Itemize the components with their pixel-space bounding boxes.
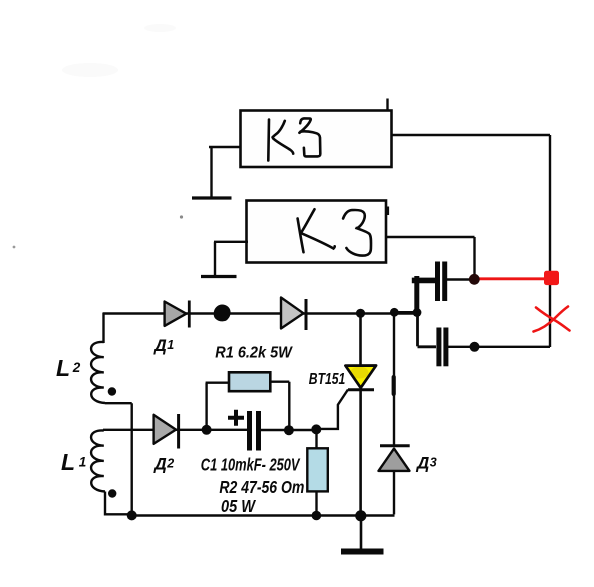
diode D1 xyxy=(165,301,190,328)
node: top rail dot to D3 xyxy=(390,308,399,317)
thyristor BT151 xyxy=(315,311,376,516)
wire: box2 right lead down to cap node xyxy=(385,237,475,278)
inductor L2 xyxy=(91,342,105,403)
relay box K3 bottom xyxy=(247,201,389,263)
node: C1 right dot xyxy=(284,425,294,435)
wire: top rail L2 to caps xyxy=(103,312,417,315)
inductor L1 xyxy=(91,430,105,491)
svg-text:R1 6.2k 5W: R1 6.2k 5W xyxy=(215,344,293,361)
resistor R1 xyxy=(206,372,290,430)
background smudges xyxy=(13,24,364,248)
node: top rail dot at thick wire xyxy=(413,308,422,317)
wire: L1 bottom to bottom rail xyxy=(105,492,132,515)
diode top second (unlabeled) xyxy=(281,298,306,331)
svg-text:C1 10mkF- 250V: C1 10mkF- 250V xyxy=(201,455,301,475)
wire: box2 left lead xyxy=(214,241,248,243)
red terminal square xyxy=(544,271,559,285)
node: L1 bottom dot xyxy=(108,489,116,497)
resistor R2 xyxy=(307,430,328,516)
ground box1 xyxy=(192,147,232,198)
diode D2 xyxy=(154,414,179,449)
wire: thick bend to top capacitor xyxy=(415,278,433,284)
svg-text:L: L xyxy=(61,449,75,475)
wire: L2 bottom to vertical xyxy=(105,403,132,515)
ground box2 xyxy=(201,242,237,277)
wire: node row y312 xyxy=(394,311,417,314)
label K3 handwritten box2 xyxy=(298,209,371,255)
diode D3 xyxy=(379,312,410,514)
svg-text:BT151: BT151 xyxy=(309,371,346,388)
node: C1 left dot xyxy=(202,425,212,435)
node: bottom rail dot center xyxy=(355,510,366,521)
node: bottom rail dot R2 xyxy=(312,511,322,521)
relay box K3 top xyxy=(241,99,392,168)
node: top cap right dot xyxy=(469,274,480,285)
svg-text:1: 1 xyxy=(79,455,87,470)
node: bottom rail dot left xyxy=(127,510,137,520)
node: top rail dot to BT151 xyxy=(356,309,365,318)
red X cut mark xyxy=(534,307,570,332)
wire: box1 left lead xyxy=(209,146,241,148)
node: fat junction blob on top rail xyxy=(214,305,231,322)
svg-text:Д3: Д3 xyxy=(415,454,437,473)
svg-text:2: 2 xyxy=(72,360,81,375)
svg-text:Д1: Д1 xyxy=(153,336,175,355)
svg-text:05 W: 05 W xyxy=(221,496,256,516)
wire: lower rail from L1 to C1 left xyxy=(103,429,247,431)
node: L2 bottom dot xyxy=(108,387,116,395)
red wire from top cap node xyxy=(475,277,546,280)
wire: box1 right lead to right vertical xyxy=(391,135,550,347)
node: bottom cap right dot xyxy=(470,342,480,352)
ground main xyxy=(341,516,384,552)
node: gate/R2 junction dot xyxy=(311,424,321,434)
label K3 handwritten box1 xyxy=(268,118,320,160)
capacitor bottom xyxy=(418,313,551,366)
capacitor C1 xyxy=(228,410,316,451)
wire: bottom rail xyxy=(131,514,395,517)
svg-text:Д2: Д2 xyxy=(153,455,175,474)
capacitor top xyxy=(438,262,475,302)
wire: L2 top drop xyxy=(102,313,104,344)
svg-text:L: L xyxy=(56,355,70,381)
svg-text:R2 47-56 Om: R2 47-56 Om xyxy=(219,477,304,497)
